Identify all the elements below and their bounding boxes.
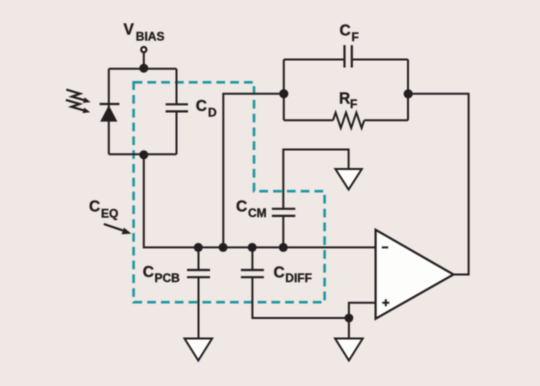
svg-text:F: F bbox=[352, 30, 359, 44]
svg-text:C: C bbox=[196, 98, 207, 115]
svg-text:EQ: EQ bbox=[101, 207, 118, 221]
svg-text:R: R bbox=[339, 90, 350, 107]
svg-text:V: V bbox=[124, 22, 135, 39]
svg-text:C: C bbox=[236, 199, 247, 216]
svg-text:C: C bbox=[274, 264, 285, 281]
svg-text:DIFF: DIFF bbox=[285, 271, 312, 285]
svg-text:C: C bbox=[89, 198, 100, 215]
svg-text:PCB: PCB bbox=[155, 271, 181, 285]
svg-text:CM: CM bbox=[248, 206, 267, 220]
svg-text:F: F bbox=[350, 97, 357, 111]
svg-text:D: D bbox=[208, 106, 217, 120]
svg-text:C: C bbox=[143, 264, 154, 281]
svg-text:BIAS: BIAS bbox=[136, 30, 165, 44]
svg-text:C: C bbox=[340, 22, 351, 39]
